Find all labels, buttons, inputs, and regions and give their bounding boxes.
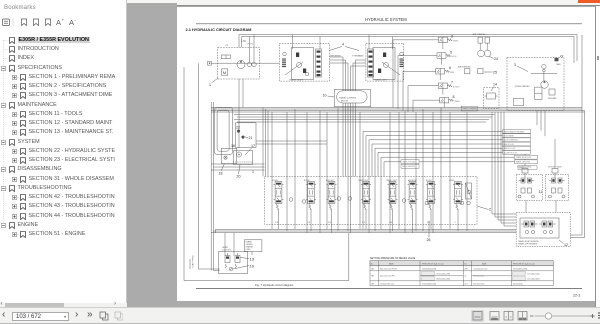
svg-text:TRAVEL (2-SPEED): TRAVEL (2-SPEED)	[339, 96, 356, 99]
svg-text:17: 17	[251, 144, 255, 148]
svg-text:SWING: SWING	[453, 40, 459, 42]
svg-text:AIR BLEEDER: AIR BLEEDER	[473, 33, 486, 36]
svg-text:P2B: P2B	[362, 222, 365, 224]
svg-text:TRAVEL LEFT: TRAVEL LEFT	[374, 78, 388, 81]
svg-text:13,7: 13,7	[465, 283, 468, 285]
svg-text:39,200 (400) (5,690): 39,200 (400) (5,690)	[513, 268, 528, 270]
svg-text:18: 18	[219, 171, 223, 175]
svg-text:P1A: P1A	[275, 221, 278, 224]
svg-text:29B: 29B	[371, 283, 374, 285]
svg-text:20: 20	[237, 174, 241, 178]
svg-text:3: 3	[514, 62, 516, 66]
svg-text:TRAVEL RIGHT: TRAVEL RIGHT	[289, 78, 304, 81]
svg-text:SETTING PRESSURE OF RELIEF VAL: SETTING PRESSURE OF RELIEF VALVE	[370, 257, 416, 260]
svg-text:8: 8	[453, 95, 455, 99]
svg-text:5: 5	[450, 50, 452, 54]
svg-text:TRAVEL: TRAVEL	[454, 99, 460, 102]
svg-text:Overload relief valve: Overload relief valve	[380, 282, 394, 285]
svg-text:BOOM LOWERING: BOOM LOWERING	[504, 139, 519, 141]
svg-text:25: 25	[493, 70, 497, 74]
svg-text:30: 30	[465, 275, 467, 277]
svg-text:1: 1	[252, 170, 254, 174]
svg-text:TRAVEL: TRAVEL	[246, 240, 252, 243]
svg-text:13,700 (140) (1,990): 13,700 (140) (1,990)	[436, 273, 451, 275]
svg-text:SWING PARKING: SWING PARKING	[515, 85, 530, 88]
svg-text:SWING: SWING	[449, 180, 455, 182]
svg-text:Overload relief valve: Overload relief valve	[474, 267, 488, 270]
svg-text:FORWARD: FORWARD	[353, 54, 365, 57]
svg-text:P3B: P3B	[427, 222, 430, 224]
svg-text:T: T	[409, 222, 410, 224]
svg-text:P3: P3	[226, 45, 229, 47]
svg-text:TRAVEL LEFT REVERSE: TRAVEL LEFT REVERSE	[518, 242, 538, 245]
svg-text:CHANGE: CHANGE	[246, 245, 254, 248]
svg-text:6: 6	[449, 66, 451, 70]
svg-text:Fig. 7 Hydraulic circuit diag: Fig. 7 Hydraulic circuit diagram	[255, 282, 294, 286]
svg-text:19,600 (200) (2,845): 19,600 (200) (2,845)	[436, 278, 451, 280]
svg-text:4.30: 4.30	[241, 39, 246, 42]
svg-text:Pilot relief valve: Pilot relief valve	[474, 282, 485, 285]
svg-text:2.1 HYDRAULIC CIRCUIT DIAGRAM: 2.1 HYDRAULIC CIRCUIT DIAGRAM	[186, 27, 252, 32]
svg-text:21: 21	[249, 136, 253, 140]
svg-text:P1B: P1B	[307, 222, 310, 224]
svg-text:M: M	[223, 69, 226, 74]
svg-text:22: 22	[236, 125, 240, 129]
svg-text:BUCKET ROLL IN: BUCKET ROLL IN	[504, 152, 518, 154]
svg-text:OVER: OVER	[246, 249, 252, 251]
svg-text:MOTOR: MOTOR	[341, 100, 349, 102]
svg-text:19: 19	[250, 263, 255, 268]
svg-text:2: 2	[489, 207, 491, 211]
svg-text:AIR BLEEDER: AIR BLEEDER	[458, 65, 471, 68]
svg-text:11: 11	[539, 190, 543, 194]
svg-text:15,7 (160) (2,280): 15,7 (160) (2,280)	[527, 273, 540, 275]
svg-text:BUCKET: BUCKET	[453, 86, 459, 88]
svg-text:37,300 (380) (5,400): 37,300 (380) (5,400)	[422, 283, 437, 285]
svg-text:24: 24	[494, 57, 498, 61]
svg-text:12,7 (130) (1,846): 12,7 (130) (1,846)	[527, 278, 540, 280]
svg-text:14: 14	[493, 82, 497, 86]
svg-text:P2A: P2A	[328, 221, 331, 224]
svg-text:34,300 (350) (4,978): 34,300 (350) (4,978)	[422, 268, 437, 270]
svg-text:HYDRAULIC SYSTEM: HYDRAULIC SYSTEM	[365, 16, 407, 21]
svg-text:28B: 28B	[371, 268, 374, 270]
svg-text:23: 23	[560, 54, 564, 58]
svg-text:4: 4	[342, 42, 344, 46]
svg-text:10: 10	[323, 93, 327, 97]
svg-text:TANK: TANK	[556, 63, 561, 66]
svg-text:P3A: P3A	[389, 221, 392, 224]
svg-text:26: 26	[427, 238, 431, 242]
svg-text:13: 13	[250, 256, 255, 261]
svg-text:RELEASE: RELEASE	[548, 97, 557, 100]
svg-text:16: 16	[231, 144, 235, 148]
svg-text:28B: 28B	[371, 275, 374, 277]
svg-text:Main relief valve (P1,P2): Main relief valve (P1,P2)	[380, 267, 397, 270]
svg-text:1: 1	[209, 83, 211, 87]
svg-text:P1 P2: P1 P2	[248, 43, 254, 45]
svg-text:Main relief valve (P3): Main relief valve (P3)	[380, 274, 395, 277]
svg-text:7: 7	[451, 80, 453, 84]
svg-text:29B: 29B	[465, 268, 468, 270]
svg-text:ARM: ARM	[451, 70, 455, 73]
svg-text:3,4 (35) (500): 3,4 (35) (500)	[513, 283, 523, 285]
svg-text:T1: T1	[454, 222, 456, 224]
svg-text:TO ATT PIPING: TO ATT PIPING	[192, 254, 195, 267]
svg-text:TRAVEL RIGHT REVERSE: TRAVEL RIGHT REVERSE	[518, 240, 539, 243]
svg-text:9: 9	[451, 34, 453, 38]
svg-text:22-3: 22-3	[573, 293, 580, 297]
svg-text:Pilot relief valve: Pilot relief valve	[474, 274, 485, 277]
svg-text:BOOM: BOOM	[452, 56, 458, 58]
svg-text:12: 12	[564, 243, 568, 247]
